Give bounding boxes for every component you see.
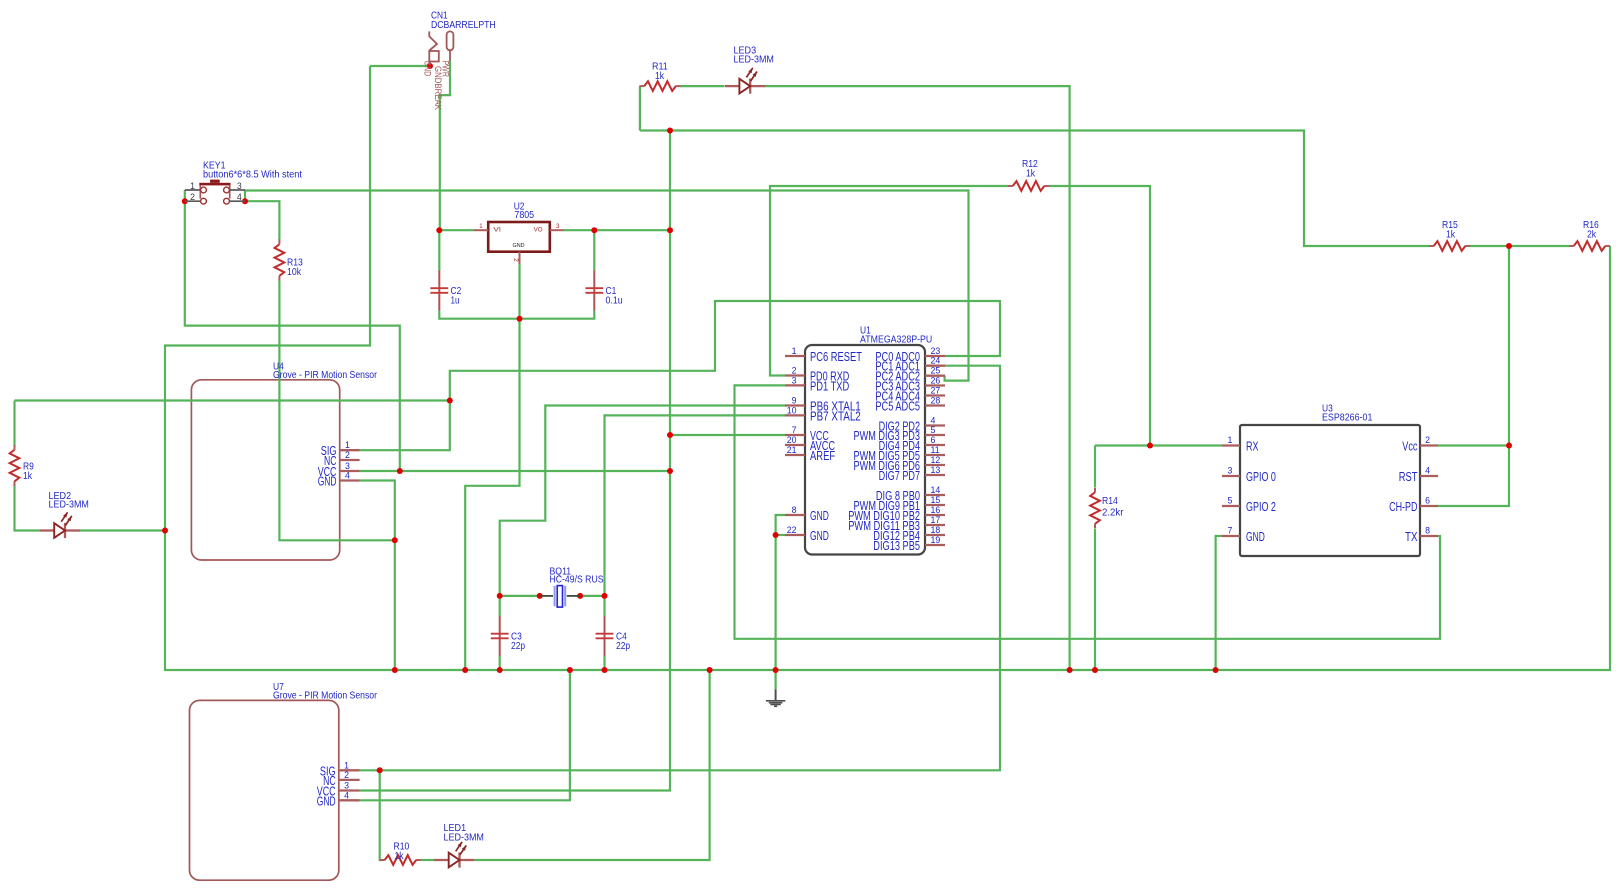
svg-text:5: 5 [931, 425, 936, 435]
svg-text:4: 4 [237, 192, 242, 202]
svg-text:GPIO 2: GPIO 2 [1246, 500, 1276, 514]
svg-text:22p: 22p [511, 640, 525, 652]
svg-text:15: 15 [931, 495, 941, 505]
svg-text:VI: VI [493, 226, 501, 233]
svg-text:27: 27 [931, 386, 941, 396]
svg-text:1k: 1k [23, 470, 33, 482]
svg-text:20: 20 [787, 435, 797, 445]
svg-text:button6*6*8.5 With stent: button6*6*8.5 With stent [203, 169, 302, 181]
svg-text:GND: GND [318, 475, 337, 489]
svg-text:Grove - PIR Motion Sensor: Grove - PIR Motion Sensor [273, 690, 377, 702]
svg-text:1k: 1k [1026, 168, 1036, 180]
svg-text:GND: GND [421, 61, 432, 77]
svg-text:24: 24 [931, 356, 941, 366]
svg-text:1: 1 [345, 440, 350, 450]
svg-text:7805: 7805 [514, 209, 534, 221]
svg-text:3: 3 [344, 781, 349, 791]
svg-text:ATMEGA328P-PU: ATMEGA328P-PU [860, 334, 932, 346]
svg-text:2k: 2k [1587, 229, 1597, 241]
svg-text:Vcc: Vcc [1402, 440, 1417, 454]
svg-text:GND: GND [810, 529, 829, 543]
svg-text:GND: GND [810, 509, 829, 523]
svg-text:1: 1 [792, 346, 797, 356]
svg-text:7: 7 [792, 425, 797, 435]
svg-text:3: 3 [556, 223, 560, 230]
svg-text:23: 23 [931, 346, 941, 356]
svg-text:1k: 1k [1446, 229, 1456, 241]
svg-text:R14: R14 [1102, 495, 1118, 507]
svg-text:21: 21 [787, 445, 797, 455]
svg-text:4: 4 [344, 790, 349, 800]
svg-text:2: 2 [344, 770, 349, 780]
svg-text:PC6 RESET: PC6 RESET [810, 350, 862, 364]
svg-text:GPIO 0: GPIO 0 [1246, 470, 1276, 484]
svg-text:PD1 TXD: PD1 TXD [810, 379, 849, 393]
svg-text:2: 2 [792, 366, 797, 376]
svg-text:GND: GND [1246, 530, 1265, 544]
svg-text:4: 4 [931, 416, 936, 426]
svg-text:12: 12 [931, 455, 941, 465]
svg-text:0.1u: 0.1u [606, 295, 623, 307]
svg-text:22p: 22p [616, 640, 630, 652]
svg-text:18: 18 [931, 525, 941, 535]
svg-text:DIG7 PD7: DIG7 PD7 [879, 469, 920, 483]
svg-text:6: 6 [1425, 496, 1430, 506]
svg-text:HC-49/S RUS: HC-49/S RUS [550, 574, 604, 586]
svg-text:2: 2 [512, 258, 519, 262]
svg-text:ESP8266-01: ESP8266-01 [1322, 412, 1373, 424]
svg-text:Grove - PIR Motion Sensor: Grove - PIR Motion Sensor [273, 369, 377, 381]
svg-text:1k: 1k [655, 70, 665, 82]
svg-text:2: 2 [345, 450, 350, 460]
svg-text:AREF: AREF [810, 449, 835, 463]
svg-text:PB7 XTAL2: PB7 XTAL2 [810, 409, 861, 423]
svg-text:1: 1 [1228, 435, 1233, 445]
svg-text:VO: VO [534, 226, 543, 233]
svg-text:2: 2 [1425, 435, 1430, 445]
svg-text:4: 4 [345, 471, 350, 481]
svg-text:2: 2 [190, 192, 195, 202]
svg-text:8: 8 [792, 505, 797, 515]
svg-text:DIG13 PB5: DIG13 PB5 [873, 539, 920, 553]
svg-text:4: 4 [1425, 466, 1430, 476]
svg-text:22: 22 [787, 525, 797, 535]
svg-text:19: 19 [931, 535, 941, 545]
svg-text:13: 13 [931, 465, 941, 475]
svg-text:PWR: PWR [440, 61, 451, 77]
svg-text:10: 10 [787, 405, 797, 415]
svg-text:LED-3MM: LED-3MM [444, 831, 484, 843]
svg-text:DCBARRELPTH: DCBARRELPTH [431, 19, 496, 31]
svg-text:28: 28 [931, 396, 941, 406]
svg-text:RX: RX [1246, 440, 1259, 454]
svg-text:25: 25 [931, 366, 941, 376]
svg-text:11: 11 [931, 445, 940, 455]
svg-text:1: 1 [190, 181, 195, 191]
svg-text:9: 9 [792, 396, 797, 406]
svg-text:2.2kr: 2.2kr [1102, 507, 1124, 519]
svg-text:LED-3MM: LED-3MM [49, 499, 89, 511]
svg-text:GND: GND [317, 794, 336, 808]
svg-text:7: 7 [1228, 526, 1233, 536]
svg-text:6: 6 [931, 435, 936, 445]
svg-text:1: 1 [479, 223, 483, 230]
svg-text:3: 3 [237, 181, 242, 191]
svg-text:3: 3 [345, 461, 350, 471]
svg-text:17: 17 [931, 515, 941, 525]
svg-text:RST: RST [1399, 470, 1418, 484]
svg-text:TX: TX [1405, 530, 1418, 544]
svg-text:1k: 1k [395, 850, 405, 862]
svg-text:3: 3 [1228, 466, 1233, 476]
svg-text:3: 3 [792, 375, 797, 385]
svg-text:1u: 1u [451, 295, 460, 307]
svg-text:PC5 ADC5: PC5 ADC5 [875, 400, 920, 414]
svg-text:10k: 10k [287, 266, 302, 278]
svg-text:14: 14 [931, 485, 941, 495]
svg-text:8: 8 [1425, 526, 1430, 536]
svg-text:CH-PD: CH-PD [1389, 500, 1417, 514]
svg-text:GND: GND [513, 243, 525, 249]
svg-text:5: 5 [1228, 496, 1233, 506]
svg-text:26: 26 [931, 376, 941, 386]
svg-text:1: 1 [344, 760, 349, 770]
svg-text:16: 16 [931, 505, 941, 515]
svg-text:LED-3MM: LED-3MM [734, 53, 774, 65]
